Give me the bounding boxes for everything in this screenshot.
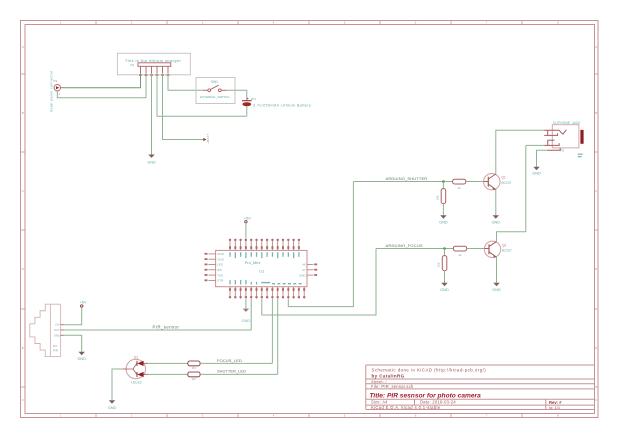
wire jack ring to Q2 path [526,144,544,146]
U1 right pins [307,265,313,276]
note: solar connector vertical text [49,70,53,112]
U1 top pins [230,239,299,251]
connector P1 (solar jack) [54,79,64,96]
svg-text:by CatalinRG: by CatalinRG [372,374,405,379]
resistor R3 [188,361,200,370]
transistor Q1 [484,174,512,191]
svg-text:P1: P1 [54,79,58,83]
svg-text:LELE2: LELE2 [131,380,141,384]
svg-text:BC237: BC237 [502,249,512,253]
svg-text:R4: R4 [192,377,196,381]
svg-text:D: D [595,267,597,271]
dual LED D1 [122,356,148,385]
ground under charger [147,155,156,165]
svg-text:E: E [22,346,24,350]
svg-text:D: D [22,267,24,271]
svg-text:GND: GND [440,288,449,292]
ground under R5 [440,283,449,292]
wire Q1 collector to jack tip [496,130,544,174]
svg-text:KiCad E.D.A. kicad 4.0.1-stab: KiCad E.D.A. kicad 4.0.1-stable [371,405,441,410]
svg-text:GND: GND [54,333,60,337]
ground at jack [532,167,541,176]
svg-text:GND: GND [217,252,224,256]
svg-text:FOCUS_LED: FOCUS_LED [217,358,242,363]
U1 right pin numbers [314,264,317,276]
svg-text:+5V: +5V [244,216,251,220]
wire charger pin4 to battery minus [157,73,247,116]
svg-text:PIR_sensor: PIR_sensor [153,325,180,330]
U1 bottom pin names [229,280,301,285]
svg-text:GND: GND [492,221,501,225]
ground under U1 [242,309,251,323]
wire R1 to gnd [442,204,444,216]
connector P2 (charger 6-pin) [131,63,171,76]
svg-text:B: B [595,111,597,115]
ground at PIR [77,352,86,361]
svg-text:ARDUINO_FOCUS: ARDUINO_FOCUS [386,243,423,248]
svg-text:CLIPHONE_JACK: CLIPHONE_JACK [553,121,581,125]
junction focus [443,247,446,250]
wire U1 to shutter LED [277,299,279,375]
svg-text:Solar panel connector: Solar panel connector [49,70,53,112]
resistor R2 series shutter [453,179,466,190]
svg-text:GND: GND [492,288,501,292]
U1 top pin tips and numbers [229,239,300,249]
wire U1 to shutter column [288,182,353,307]
ground at LED [108,400,117,410]
svg-text:GND: GND [217,257,224,261]
svg-text:OUT: OUT [54,328,60,332]
wire R2 to Q1 base [466,181,484,183]
svg-text:GND: GND [299,273,305,277]
svg-text:EXTERNAL_SWITCH: EXTERNAL_SWITCH [200,95,229,99]
svg-text:BT1: BT1 [251,97,257,101]
wire solar pin1 to charger pin1 [64,73,141,88]
svg-text:Title: PIR sesnsor for photo c: Title: PIR sesnsor for photo camera [370,393,482,400]
wire U1 to focus LED [271,299,273,364]
wire R6 to Q2 base [467,248,485,250]
wire LED common to gnd [112,369,122,400]
wire LED to resistor R3 [148,362,188,364]
wire charger pin5 to +BATT [163,73,204,139]
ground under Q2 [492,283,501,292]
svg-text:C: C [595,189,597,193]
svg-text:C: C [22,189,24,193]
svg-text:GND: GND [439,221,448,225]
wire switch to battery plus [227,90,247,99]
U1 left pin names [217,252,224,283]
wire U1 to PIR_sensor net [64,299,252,330]
transistor Q2 [484,241,512,258]
power port +5V above U1 [244,216,251,238]
resistor R4 [188,372,200,381]
U1 left pins [208,254,215,281]
switch SW1 [200,80,229,99]
wire PIR vcc to +5V [64,308,82,325]
wire Q2 emitter to gnd [496,257,498,283]
svg-text:TXD: TXD [217,273,223,277]
wire R5 to gnd [444,271,446,283]
svg-text:E: E [595,346,597,350]
svg-text:File: PIR_sensor.sch: File: PIR_sensor.sch [371,384,414,389]
U1 bottom pins [230,287,304,299]
svg-text:STR: STR [217,279,223,283]
wire charger pin6 to switch [168,73,203,90]
svg-text:F: F [595,398,597,402]
svg-text:Pro_Mini: Pro_Mini [245,260,261,265]
svg-text:10k: 10k [436,195,440,200]
svg-text:SW1: SW1 [211,80,218,84]
U1 bottom pin numbers [229,288,305,298]
svg-text:Q1: Q1 [502,176,506,180]
svg-text:1k: 1k [458,186,462,190]
note box: lithium charger [117,53,190,75]
svg-text:BC237: BC237 [502,181,512,185]
wire LED to resistor R4 [148,373,188,375]
resistor R1 pulldown [436,189,446,204]
svg-text:A6: A6 [302,263,306,267]
svg-text:B: B [22,111,24,115]
PIR pins [61,325,64,336]
svg-text:Id: 1/1: Id: 1/1 [549,405,561,410]
svg-text:Schematic done in KiCAD (http:: Schematic done in KiCAD (http://kicad-pc… [372,367,487,372]
battery BT1 [242,97,311,116]
svg-text:SHUTTER_LED: SHUTTER_LED [217,368,246,373]
camera jack P5 [544,121,583,157]
wire charger pin3 to gnd [151,73,153,154]
svg-text:P2: P2 [131,63,135,67]
svg-text:GND: GND [532,172,541,176]
PIR pin names [54,323,60,338]
note box: external switch [196,78,235,104]
wire Q2 collector to jack ring [497,145,526,241]
wire shutter net [353,181,452,183]
svg-text:+5V: +5V [55,323,60,327]
svg-text:U1: U1 [259,268,265,273]
wire R3 to U1 / FOCUS_LED [200,362,272,364]
svg-text:GND: GND [147,161,156,165]
IC U1 Pro_Mini body [216,250,307,286]
svg-text:D1: D1 [134,356,138,360]
resistor R5 pulldown [437,256,447,271]
svg-text:P5: P5 [561,149,565,153]
wire U1 to focus column [262,249,376,316]
svg-text:GND: GND [108,406,117,410]
wire R4 to U1 / SHUTTER_LED [200,373,278,375]
svg-text:1k: 1k [458,253,462,257]
wire U1 pin to gnd stub [245,299,247,309]
wire Q1 emitter to gnd [495,190,497,216]
svg-text:F: F [22,398,24,402]
svg-text:GND: GND [77,357,86,361]
U1 right pin names [299,263,306,278]
svg-text:PIR: PIR [53,349,59,353]
svg-text:P4: P4 [53,344,57,348]
svg-text:ARDUINO_SHUTTER: ARDUINO_SHUTTER [386,176,428,181]
svg-text:A7: A7 [302,268,306,272]
wire jack sleeve to gnd [537,150,548,167]
svg-text:Q2: Q2 [502,243,506,247]
U1 left pin numbers [205,253,208,281]
ground under Q1 [492,215,501,224]
resistor R6 series focus [453,246,466,257]
wire focus net [376,248,453,250]
svg-text:3.7v/250mAh Lithium Battery: 3.7v/250mAh Lithium Battery [253,104,311,108]
title block [366,365,595,410]
wire solar pin2 to charger pin2 [57,73,146,98]
svg-text:A: A [22,45,24,49]
power port +BATT [203,133,210,144]
wire junction to R1 [442,182,444,189]
power port +5V at PIR [80,300,87,307]
svg-text:RXI: RXI [217,268,222,272]
wire PIR gnd [64,335,82,352]
svg-text:R3: R3 [192,366,196,370]
svg-text:+5V: +5V [80,300,87,304]
svg-text:A: A [595,45,597,49]
svg-text:LED: LED [217,263,223,267]
svg-text:GND: GND [242,319,251,323]
wire junction to R5 [444,249,446,256]
PIR sensor module [30,304,61,356]
svg-text:+BATT: +BATT [206,133,210,144]
svg-text:10k: 10k [437,262,441,267]
junction shutter [442,180,445,183]
ground under R1 [439,215,448,224]
U1 top pin names [229,252,299,258]
